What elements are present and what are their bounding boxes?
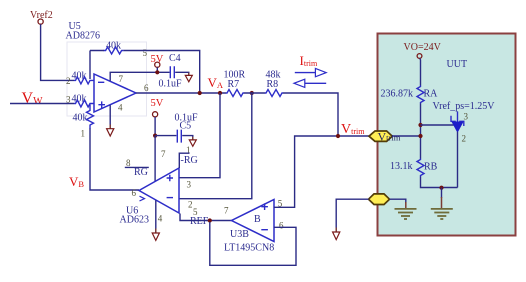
svg-text:AD623: AD623 bbox=[120, 215, 149, 226]
wire feedback left riser bbox=[89, 51, 91, 80]
wire C5 node bbox=[155, 135, 176, 137]
wire VA down to U6 pin3 bbox=[179, 93, 220, 178]
svg-text:5V: 5V bbox=[151, 98, 164, 109]
wire U5 output to R7 (node VA) bbox=[136, 92, 226, 94]
UUT box bbox=[378, 34, 516, 236]
svg-text:3: 3 bbox=[464, 112, 469, 122]
junction 5V/C5 bbox=[153, 134, 157, 138]
svg-text:Vref_ps=1.25V: Vref_ps=1.25V bbox=[433, 101, 496, 112]
power ground arrow (C4) bbox=[188, 73, 190, 76]
junction REF/U3B out/feedback bbox=[208, 218, 212, 222]
wire U5 pin4 bbox=[109, 105, 111, 129]
earth ground (UUT right) bbox=[431, 209, 453, 219]
svg-text:5: 5 bbox=[143, 48, 148, 58]
svg-text:R8: R8 bbox=[267, 79, 279, 90]
sheet connector Vtrim (hexagon) bbox=[369, 129, 401, 143]
junction VA / U6 pin3 bbox=[218, 91, 222, 95]
resistor 40k vertical (pin 1) bbox=[73, 105, 94, 139]
svg-text:7: 7 bbox=[119, 74, 124, 84]
power port 5V (C5) bbox=[151, 98, 164, 136]
current arrow right bbox=[295, 68, 326, 76]
svg-text:RG: RG bbox=[134, 167, 148, 178]
wire R7 to R8 bbox=[244, 92, 265, 94]
power ground arrow (U6 pin4) bbox=[155, 229, 157, 234]
wire to earth ground 2 bbox=[441, 188, 443, 199]
pin 5 REF label U6 bbox=[190, 207, 209, 227]
power port VO=24V bbox=[404, 42, 442, 58]
svg-text:7: 7 bbox=[161, 149, 166, 159]
resistor 40k (U5 pin3 input) bbox=[66, 94, 95, 108]
wire R8 to Vtrim riser bbox=[283, 93, 338, 136]
resistor 40k feedback (pin 5) bbox=[104, 41, 148, 59]
wire feedback top run bbox=[90, 51, 200, 93]
current arrow left bbox=[294, 79, 326, 87]
wire RA down bbox=[420, 104, 422, 159]
power ground arrow (hexagon wire) bbox=[335, 228, 337, 233]
power port Vref2 bbox=[30, 10, 53, 24]
power ground arrow (C5) bbox=[192, 137, 194, 140]
wire 40k down to VB / U6 output bbox=[90, 129, 139, 191]
svg-text:R7: R7 bbox=[228, 79, 240, 90]
svg-text:4: 4 bbox=[158, 214, 163, 224]
op-amp U5 bbox=[66, 21, 150, 113]
svg-text:6: 6 bbox=[279, 221, 284, 231]
svg-text:C4: C4 bbox=[169, 53, 181, 64]
wire U5 pin7 supply bbox=[110, 72, 169, 81]
wire 5V node down to U6 pin7 bbox=[154, 136, 156, 181]
svg-text:LT1495CN8: LT1495CN8 bbox=[224, 243, 274, 254]
op-amp U3B bbox=[224, 199, 284, 254]
svg-text:RA: RA bbox=[424, 89, 439, 100]
wire C4 to ground arrow bbox=[175, 72, 189, 75]
resistor R7 bbox=[224, 70, 246, 97]
svg-text:4: 4 bbox=[118, 103, 123, 113]
svg-text:2: 2 bbox=[66, 76, 71, 86]
capacitor C5 bbox=[175, 113, 199, 143]
wire Vref2 to U5 pin2 bbox=[41, 24, 74, 80]
svg-text:REF: REF bbox=[190, 216, 209, 227]
wire U6 pin4 bbox=[155, 200, 157, 233]
svg-text:0.1uF: 0.1uF bbox=[159, 79, 183, 90]
svg-text:13.1k: 13.1k bbox=[390, 161, 413, 172]
resistor RB bbox=[390, 159, 438, 177]
svg-text:RB: RB bbox=[424, 162, 438, 173]
junction RB/TL431/ground bbox=[439, 186, 443, 190]
pin 8 stub +RG bbox=[125, 158, 149, 178]
junction RA/TL431 ref bbox=[418, 123, 422, 127]
shunt reference D (TL431 style) Vref_ps bbox=[433, 101, 496, 144]
svg-text:3: 3 bbox=[187, 180, 192, 190]
wire ref to shunt reference bbox=[421, 124, 454, 126]
junction R7/R8 to U6 pin2 bbox=[250, 91, 254, 95]
wire hexagon to RA/RB node bbox=[392, 135, 421, 137]
wire U3B pin5 up to Vtrim net bbox=[274, 136, 369, 207]
svg-text:B: B bbox=[254, 214, 261, 225]
resistor 40k (U5 pin2 input) bbox=[66, 71, 95, 87]
svg-text:6: 6 bbox=[144, 83, 149, 93]
svg-text:236.87k: 236.87k bbox=[381, 89, 414, 100]
wire R7R8 junction down to U6 pin2 bbox=[179, 93, 252, 199]
wire C5 to ground arrow bbox=[182, 136, 193, 140]
svg-text:8: 8 bbox=[126, 158, 131, 168]
junction RA/Vtrim bbox=[418, 134, 422, 138]
power port 5V (C4) bbox=[151, 54, 164, 72]
wire VW to U5 pin3 bbox=[10, 103, 74, 105]
op-amp U6 bbox=[120, 149, 180, 226]
wire U3B pin6 feedback loop bbox=[210, 222, 296, 265]
wire hexagon to earth ground 1 bbox=[390, 199, 406, 203]
svg-text:2: 2 bbox=[188, 200, 193, 210]
svg-text:7: 7 bbox=[224, 206, 229, 216]
wire VO to RA bbox=[419, 58, 422, 85]
wire hexagon left to arrow bbox=[336, 199, 368, 232]
svg-text:-RG: -RG bbox=[181, 155, 198, 166]
pin 1 stub -RG bbox=[179, 145, 197, 168]
wire TL431 cathode down bbox=[457, 132, 459, 188]
svg-text:VO=24V: VO=24V bbox=[404, 42, 442, 53]
svg-text:3: 3 bbox=[66, 95, 71, 105]
svg-text:AD8276: AD8276 bbox=[66, 31, 100, 42]
junction Vtrim bbox=[336, 134, 340, 138]
svg-text:1: 1 bbox=[81, 129, 86, 139]
resistor R8 bbox=[265, 70, 283, 97]
junction 5V/C4 bbox=[155, 70, 159, 74]
capacitor C4 bbox=[159, 53, 183, 90]
svg-text:2: 2 bbox=[462, 134, 467, 144]
svg-text:U3B: U3B bbox=[230, 229, 249, 240]
svg-text:6: 6 bbox=[132, 188, 137, 198]
svg-text:40k: 40k bbox=[73, 113, 88, 124]
wire U6 REF to U3B output bbox=[180, 214, 232, 221]
part body outline U5 bbox=[67, 42, 147, 116]
svg-text:UUT: UUT bbox=[447, 59, 468, 70]
resistor RA bbox=[381, 86, 439, 104]
earth ground (UUT left) bbox=[395, 209, 417, 219]
sheet connector (hexagon, lower) bbox=[369, 194, 390, 205]
wire RB bottom loop bbox=[421, 177, 458, 188]
power ground arrow (U5 pin4) bbox=[109, 125, 111, 129]
junction feedback/output bbox=[198, 91, 202, 95]
